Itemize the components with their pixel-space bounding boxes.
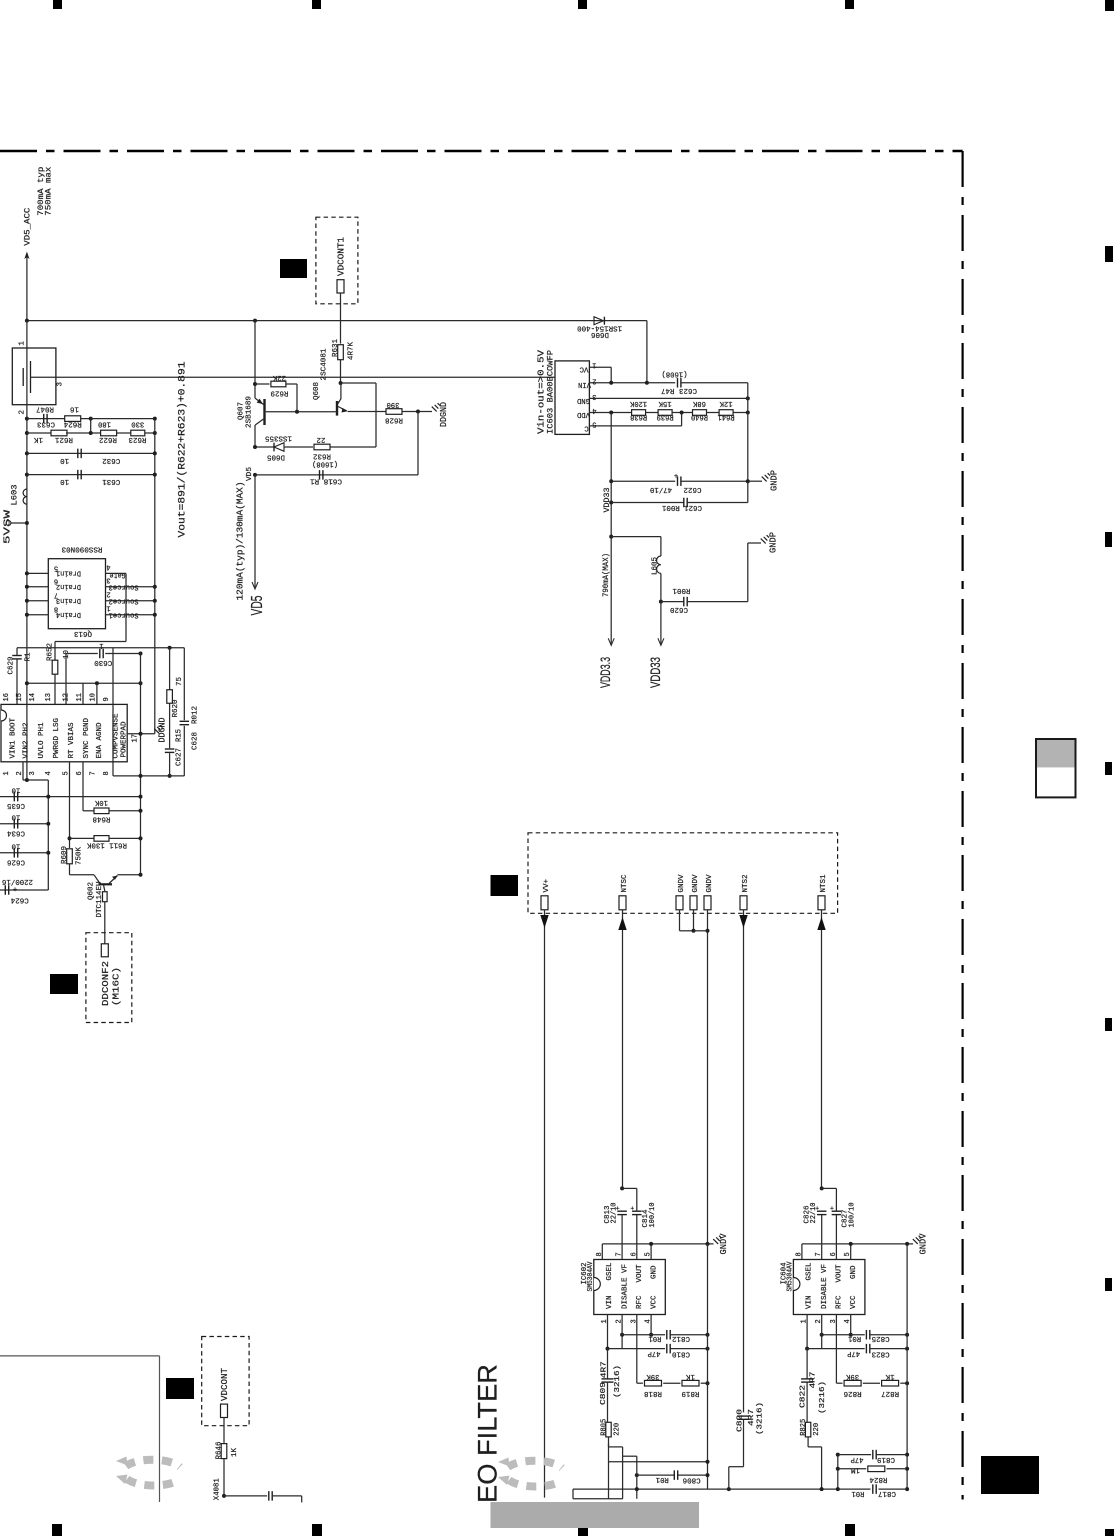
resistor R631 4R7K bbox=[340, 321, 342, 344]
resistor R623 330 bbox=[131, 430, 145, 436]
svg-text:120mA(typ)/130mA(MAX): 120mA(typ)/130mA(MAX) bbox=[236, 482, 246, 601]
svg-text:VD5: VD5 bbox=[246, 466, 254, 481]
IC602 resistor R805 220 bbox=[606, 1422, 611, 1437]
connector CN video dashed box bbox=[528, 833, 838, 914]
svg-text:C806: C806 bbox=[682, 1476, 700, 1484]
connector VDCONT1 pin bbox=[337, 280, 344, 293]
svg-text:1: 1 bbox=[19, 341, 27, 346]
svg-text:NTSC: NTSC bbox=[621, 874, 629, 892]
grey footer bar bbox=[491, 1502, 700, 1528]
wire rail to VIN bbox=[646, 321, 648, 383]
IC602 series cap C809 4R7 bbox=[607, 1349, 609, 1379]
svg-text:VIN: VIN bbox=[606, 1296, 614, 1310]
svg-text:R827: R827 bbox=[881, 1389, 899, 1397]
svg-text:RFC: RFC bbox=[836, 1295, 844, 1309]
page border crop mark top 4 bbox=[845, 0, 854, 9]
inductor L605 bbox=[657, 556, 661, 573]
capacitor C629 R1 bbox=[16, 648, 18, 655]
svg-text:C618 R1: C618 R1 bbox=[310, 476, 342, 484]
svg-text:VIN2 PH2: VIN2 PH2 bbox=[23, 723, 31, 759]
resistor R624 16 bbox=[65, 416, 81, 422]
svg-text:ENA AGND: ENA AGND bbox=[96, 722, 104, 758]
svg-text:120K: 120K bbox=[630, 399, 647, 407]
net VD5 output arrow bbox=[254, 475, 256, 588]
svg-text:R01: R01 bbox=[648, 1334, 661, 1342]
node VD5 branch bbox=[253, 319, 257, 323]
capacitor C819 47P bbox=[836, 1453, 840, 1457]
svg-text:17: 17 bbox=[132, 734, 140, 742]
wire R805 tail bbox=[608, 1443, 610, 1498]
svg-text:VDD33: VDD33 bbox=[647, 657, 663, 688]
svg-text:(3216): (3216) bbox=[819, 1381, 827, 1414]
wire GNDV2 bbox=[693, 910, 695, 931]
svg-text:GNDV: GNDV bbox=[706, 874, 714, 892]
svg-text:C627: C627 bbox=[176, 748, 184, 766]
svg-text:C812: C812 bbox=[672, 1334, 690, 1342]
svg-text:2: 2 bbox=[19, 410, 27, 415]
svg-text:4R7: 4R7 bbox=[810, 1372, 818, 1389]
svg-text:GNDV: GNDV bbox=[919, 1233, 929, 1255]
svg-text:R819: R819 bbox=[682, 1389, 700, 1397]
svg-text:C809: C809 bbox=[600, 1382, 608, 1405]
connector pin VV+ bbox=[541, 896, 548, 910]
svg-text:Q608: Q608 bbox=[313, 382, 321, 400]
svg-text:39K: 39K bbox=[646, 1372, 659, 1380]
svg-text:C628: C628 bbox=[192, 732, 200, 750]
page border crop mark bottom right bbox=[1105, 1529, 1114, 1536]
reference marker black box bottom right bbox=[981, 1456, 1039, 1494]
reference marker black box DDCONF2 bbox=[50, 974, 78, 994]
svg-text:DDGND: DDGND bbox=[439, 402, 449, 427]
svg-text:22/10: 22/10 bbox=[610, 1202, 618, 1223]
svg-text:2SB1689: 2SB1689 bbox=[246, 396, 254, 428]
battery cell symbol bbox=[22, 368, 24, 386]
svg-text:R648: R648 bbox=[93, 815, 111, 823]
svg-text:R825: R825 bbox=[800, 1418, 808, 1435]
signal arrow NTS2 down bbox=[743, 910, 745, 1413]
svg-text:3: 3 bbox=[29, 771, 37, 775]
svg-text:Vout=891/(R622+R623)+0.891: Vout=891/(R622+R623)+0.891 bbox=[177, 362, 189, 538]
svg-text:VCC: VCC bbox=[850, 1295, 858, 1309]
resistor R648 10K bbox=[82, 762, 84, 811]
svg-text:GNDV: GNDV bbox=[719, 1233, 729, 1255]
sheet frame dash-dot top line bbox=[0, 150, 963, 153]
svg-text:47P: 47P bbox=[850, 1455, 863, 1463]
svg-text:C819: C819 bbox=[877, 1455, 895, 1463]
svg-text:(M16C): (M16C) bbox=[111, 967, 121, 1006]
resistor R632 22 bbox=[314, 444, 330, 450]
svg-text:1: 1 bbox=[99, 641, 103, 649]
left rail x48 bbox=[47, 780, 49, 890]
svg-text:16: 16 bbox=[3, 693, 11, 701]
svg-text:VV+: VV+ bbox=[543, 879, 551, 893]
connector pin NTS1 bbox=[818, 896, 825, 910]
page border crop mark bottom 1 bbox=[52, 1524, 62, 1536]
zone marker square right 1 bbox=[1105, 246, 1113, 262]
svg-text:1K: 1K bbox=[34, 435, 43, 443]
svg-text:10K: 10K bbox=[95, 798, 108, 806]
transistor Q608 2SC4081 bbox=[336, 401, 338, 416]
connector pin GNDV bbox=[676, 896, 683, 910]
capacitor C627 R15 bbox=[169, 703, 171, 748]
svg-text:Q613: Q613 bbox=[74, 629, 92, 637]
svg-text:R632: R632 bbox=[313, 451, 331, 459]
connector VDCONT pin bbox=[221, 1404, 228, 1417]
page border crop mark bottom 3 bbox=[578, 1523, 588, 1536]
svg-text:C622: C622 bbox=[684, 485, 702, 493]
svg-text:VC: VC bbox=[579, 365, 588, 373]
svg-text:Q607: Q607 bbox=[238, 402, 246, 420]
capacitor C632 10 bbox=[25, 451, 29, 455]
svg-text:75: 75 bbox=[176, 677, 184, 686]
zone marker square right 4 bbox=[1105, 1018, 1112, 1031]
svg-text:22K: 22K bbox=[273, 373, 286, 381]
wire comp network top row bbox=[17, 647, 184, 649]
node L605 bottom bbox=[659, 600, 663, 604]
svg-text:Source1: Source1 bbox=[109, 610, 139, 618]
wire row A to rail bbox=[609, 1461, 708, 1463]
svg-text:SM5304AV: SM5304AV bbox=[587, 1261, 595, 1291]
logo watermark 2 bbox=[508, 1461, 562, 1487]
svg-text:22: 22 bbox=[317, 435, 326, 443]
svg-text:R623: R623 bbox=[128, 435, 146, 443]
node row1-right bbox=[89, 417, 93, 421]
svg-text:C630: C630 bbox=[94, 658, 112, 666]
svg-text:R646: R646 bbox=[216, 1441, 224, 1459]
connector pin GNDV bbox=[704, 896, 711, 910]
svg-text:R826: R826 bbox=[843, 1389, 861, 1397]
svg-text:100/10: 100/10 bbox=[848, 1202, 856, 1227]
resistor R824 1M bbox=[836, 1467, 840, 1471]
svg-text:+: + bbox=[830, 1204, 834, 1211]
svg-text:4: 4 bbox=[592, 406, 596, 414]
svg-text:R620: R620 bbox=[172, 699, 180, 717]
svg-text:C817: C817 bbox=[878, 1489, 896, 1497]
IC604 resistor R825 220 bbox=[805, 1422, 810, 1437]
svg-text:9: 9 bbox=[103, 697, 111, 701]
svg-text:R639: R639 bbox=[657, 412, 674, 420]
IC603 pin VIN bbox=[589, 382, 675, 384]
svg-text:VCC: VCC bbox=[650, 1295, 658, 1309]
svg-text:C825: C825 bbox=[871, 1334, 889, 1342]
IC partial box bottom-left bbox=[0, 1355, 160, 1357]
svg-text:GNDP: GNDP bbox=[770, 470, 780, 491]
connector VDCONT1 dashed box bbox=[316, 217, 358, 304]
page border crop mark top 1 bbox=[53, 0, 62, 9]
svg-text:22/10: 22/10 bbox=[810, 1202, 818, 1223]
ground DDGND bbox=[154, 729, 159, 734]
svg-text:R638: R638 bbox=[630, 412, 647, 420]
svg-text:C810: C810 bbox=[672, 1349, 690, 1357]
page border crop mark bottom 2 bbox=[312, 1524, 322, 1536]
signal arrow VV+ down bbox=[544, 910, 546, 1498]
svg-text:VIN1 BOOT: VIN1 BOOT bbox=[10, 718, 18, 759]
svg-text:4R7K: 4R7K bbox=[348, 342, 356, 360]
net VDD3.3 arrow bbox=[609, 535, 613, 539]
svg-text:VD5_ACC: VD5_ACC bbox=[24, 207, 33, 245]
connector pin NTSC bbox=[619, 896, 626, 910]
svg-text:Drain4: Drain4 bbox=[56, 610, 81, 618]
resistor R638 120K bbox=[632, 410, 646, 416]
svg-text:D605: D605 bbox=[267, 452, 285, 460]
svg-text:R818: R818 bbox=[644, 1389, 662, 1397]
svg-text:SYNC PGND: SYNC PGND bbox=[83, 718, 91, 759]
svg-text:R805: R805 bbox=[601, 1418, 609, 1435]
IC602 RFC row R818 R819 bbox=[636, 1315, 638, 1384]
zone marker square right 5 bbox=[1105, 1278, 1112, 1291]
node Q608 collector bbox=[339, 381, 343, 385]
svg-text:1SS355: 1SS355 bbox=[265, 433, 292, 441]
svg-text:RSS090N03: RSS090N03 bbox=[61, 544, 102, 552]
connector DDCONF2 pin bbox=[101, 944, 108, 957]
svg-text:VDD33: VDD33 bbox=[603, 487, 612, 512]
IC603 pin VC bbox=[589, 366, 611, 368]
svg-text:R631: R631 bbox=[332, 339, 340, 357]
wire Q607 emitter riser bbox=[254, 321, 256, 399]
ground GNDP 2 bbox=[747, 543, 749, 602]
svg-text:R640: R640 bbox=[691, 412, 708, 420]
svg-text:2200/16: 2200/16 bbox=[2, 877, 33, 885]
svg-text:R824: R824 bbox=[869, 1475, 887, 1483]
svg-text:1: 1 bbox=[592, 361, 596, 369]
svg-text:GSEL: GSEL bbox=[806, 1262, 814, 1280]
diode D606 1SR154-400 bbox=[594, 317, 603, 325]
capacitor C817 R01 bbox=[871, 1485, 879, 1494]
svg-text:220: 220 bbox=[614, 1422, 622, 1435]
svg-text:RT VBIAS: RT VBIAS bbox=[68, 722, 76, 758]
IC601 buck converter box bbox=[1, 704, 127, 761]
svg-text:DISABLE VF: DISABLE VF bbox=[821, 1264, 829, 1309]
capacitor C626 10 bbox=[0, 852, 48, 854]
reference marker black box connector bbox=[491, 875, 519, 896]
capacitor C635 10 bbox=[0, 796, 141, 798]
svg-text:VDCONT: VDCONT bbox=[220, 1367, 230, 1401]
IC604 series cap C822 4R7 bbox=[806, 1349, 808, 1379]
svg-text:C634: C634 bbox=[7, 828, 25, 836]
IC603 pin GND bbox=[589, 397, 747, 399]
net VD5_ACC arrow bbox=[26, 256, 28, 321]
svg-text:2SC4081: 2SC4081 bbox=[321, 348, 329, 380]
capacitor C618 R1 1608 bbox=[253, 473, 257, 477]
svg-text:Q602: Q602 bbox=[88, 882, 96, 900]
transistor Q602 DTC114EU bbox=[70, 874, 95, 876]
IC604 VIN row cap C823 bbox=[806, 1315, 808, 1349]
svg-text:220: 220 bbox=[813, 1422, 821, 1435]
svg-text:D606: D606 bbox=[591, 330, 609, 338]
resistor R609 750K bbox=[67, 849, 73, 864]
svg-text:R641: R641 bbox=[717, 412, 734, 420]
svg-text:3: 3 bbox=[592, 392, 596, 400]
svg-text:R652: R652 bbox=[47, 643, 55, 661]
svg-text:C624: C624 bbox=[10, 896, 28, 904]
svg-text:5: 5 bbox=[592, 419, 596, 427]
svg-text:R01: R01 bbox=[848, 1334, 861, 1342]
svg-text:VDCONT1: VDCONT1 bbox=[337, 237, 347, 276]
svg-text:10: 10 bbox=[60, 456, 69, 464]
svg-text:R629: R629 bbox=[271, 389, 289, 397]
svg-text:12: 12 bbox=[62, 693, 70, 701]
svg-text:13: 13 bbox=[45, 693, 53, 701]
wire pin8 to bottom row bbox=[112, 648, 114, 776]
svg-text:C623 R47: C623 R47 bbox=[661, 386, 697, 394]
terminal 5VSW bbox=[6, 521, 11, 526]
page border crop mark top 2 bbox=[312, 0, 321, 9]
svg-text:R609: R609 bbox=[61, 846, 69, 864]
resistor R652 10 bbox=[54, 642, 56, 661]
resistor R639 15K bbox=[658, 410, 672, 416]
svg-text:GSEL: GSEL bbox=[606, 1262, 614, 1280]
svg-text:11: 11 bbox=[76, 693, 84, 701]
svg-text:Drain3: Drain3 bbox=[56, 596, 81, 604]
svg-text:R624: R624 bbox=[63, 420, 81, 428]
svg-text:C626: C626 bbox=[7, 857, 25, 865]
svg-text:(3216): (3216) bbox=[614, 1365, 622, 1398]
svg-text:1M: 1M bbox=[851, 1465, 860, 1473]
wire powerpad bottom row bbox=[113, 775, 184, 777]
wire VDCONT1 to rail bbox=[340, 293, 342, 321]
IC603 pin C bbox=[589, 425, 681, 427]
svg-text:1K: 1K bbox=[686, 1372, 695, 1380]
connector VDCONT dashed box bbox=[202, 1337, 249, 1426]
svg-text:3: 3 bbox=[106, 576, 110, 584]
svg-text:47P: 47P bbox=[847, 1349, 860, 1357]
svg-text:C621 R001: C621 R001 bbox=[662, 503, 702, 511]
signal arrow NTS1 up bbox=[821, 910, 823, 1189]
svg-text:750K: 750K bbox=[76, 847, 84, 865]
svg-text:3: 3 bbox=[57, 382, 65, 387]
svg-text:C823: C823 bbox=[871, 1349, 889, 1357]
svg-text:4: 4 bbox=[45, 771, 53, 775]
capacitor C806 R01 row bbox=[635, 1473, 639, 1477]
svg-text:VOUT: VOUT bbox=[836, 1264, 844, 1282]
svg-text:GNDV: GNDV bbox=[692, 874, 700, 892]
GNDV rail IC602 lower bbox=[707, 1244, 709, 1489]
IC601 powerpad pin 17 bbox=[127, 733, 155, 735]
capacitor bottom left bbox=[224, 1495, 267, 1497]
IC604 VCC row cap C825 bbox=[850, 1315, 852, 1335]
capacitor C631 10 bbox=[25, 473, 29, 477]
svg-text:R1: R1 bbox=[25, 652, 33, 661]
svg-text:C822: C822 bbox=[800, 1385, 808, 1408]
reference marker black box VDCONT bbox=[166, 1378, 194, 1399]
resistor R620 75 bbox=[169, 648, 171, 690]
wire R825 tail bbox=[808, 1446, 822, 1448]
svg-text:1: 1 bbox=[3, 771, 11, 775]
svg-text:R01: R01 bbox=[655, 1475, 668, 1483]
svg-text:R621: R621 bbox=[55, 435, 73, 443]
resistor R611 130K bbox=[69, 762, 71, 848]
svg-text:R611 130K: R611 130K bbox=[87, 841, 127, 849]
svg-text:GNDP: GNDP bbox=[769, 532, 779, 553]
svg-text:(3216): (3216) bbox=[757, 1402, 765, 1435]
svg-text:2: 2 bbox=[592, 376, 596, 384]
svg-text:Drain2: Drain2 bbox=[56, 582, 81, 590]
capacitor C820 4R7 3216 on NTS2 bbox=[738, 1415, 750, 1417]
signal arrow NTSC up bbox=[622, 910, 624, 1189]
svg-text:+: + bbox=[13, 884, 17, 892]
svg-text:1K: 1K bbox=[231, 1448, 239, 1457]
Q613 gate pin 4 bbox=[106, 572, 127, 574]
capacitor C623 R47 1608 bbox=[677, 378, 679, 388]
svg-text:GND: GND bbox=[850, 1265, 858, 1279]
resistor R640 68K bbox=[693, 410, 707, 416]
svg-text:SM5304AV: SM5304AV bbox=[786, 1261, 794, 1291]
svg-text:R01: R01 bbox=[851, 1489, 864, 1497]
svg-text:DDGND: DDGND bbox=[158, 718, 168, 743]
page border crop mark top right bbox=[1105, 0, 1114, 11]
svg-text:C635: C635 bbox=[7, 801, 25, 809]
wire VDD33 to L605 bbox=[611, 536, 661, 538]
svg-text:RFC: RFC bbox=[636, 1295, 644, 1309]
svg-text:VDD: VDD bbox=[577, 410, 590, 418]
sheet frame dash-dot right line bbox=[961, 151, 963, 1500]
svg-text:5VSW: 5VSW bbox=[3, 509, 13, 544]
IC603 pin VDD bbox=[589, 412, 631, 414]
svg-text:+: + bbox=[630, 1204, 634, 1211]
svg-text:47P: 47P bbox=[647, 1349, 660, 1357]
svg-text:C: C bbox=[584, 424, 589, 432]
svg-text:7: 7 bbox=[90, 771, 98, 775]
svg-text:15K: 15K bbox=[658, 399, 671, 407]
wire pin11/pin10 row bbox=[27, 682, 141, 684]
svg-text:390: 390 bbox=[386, 400, 399, 408]
capacitor C621 R001 bbox=[609, 501, 613, 505]
wire GNDV3 rail bbox=[707, 910, 709, 1244]
capacitor C620 R001 bbox=[661, 601, 684, 603]
IC602 input caps C813 C814 bbox=[620, 1186, 624, 1190]
svg-text:DDCONF2: DDCONF2 bbox=[101, 961, 111, 1006]
svg-text:VIN: VIN bbox=[806, 1296, 814, 1310]
IC602 ground row GNDV bbox=[601, 1244, 603, 1260]
svg-text:R047: R047 bbox=[36, 404, 54, 412]
node bus-rail junction bbox=[25, 319, 29, 323]
svg-text:100/10: 100/10 bbox=[649, 1202, 657, 1227]
resistor R622 180 bbox=[101, 430, 117, 436]
svg-text:4R7: 4R7 bbox=[601, 1361, 609, 1378]
svg-text:68K: 68K bbox=[693, 399, 706, 407]
wire row1-row2 link bbox=[90, 419, 92, 433]
svg-text:16: 16 bbox=[70, 404, 79, 412]
IC602 VCC row cap C812 bbox=[650, 1315, 652, 1335]
svg-text:DISABLE VF: DISABLE VF bbox=[622, 1264, 630, 1309]
svg-text:180: 180 bbox=[98, 420, 111, 428]
connector pin NTS2 bbox=[740, 896, 747, 910]
resistor R646 1K bbox=[223, 1418, 225, 1443]
svg-text:POWERPAD: POWERPAD bbox=[121, 721, 129, 757]
connector pin GNDV bbox=[690, 896, 697, 910]
zone marker square right 3 bbox=[1105, 762, 1112, 775]
svg-text:NTS1: NTS1 bbox=[820, 874, 828, 892]
svg-text:IC603 BA00BCOWFP: IC603 BA00BCOWFP bbox=[546, 350, 556, 434]
svg-text:COMPVSENSE: COMPVSENSE bbox=[113, 713, 121, 758]
svg-text:C632: C632 bbox=[102, 456, 120, 464]
VDD33 rail bbox=[610, 413, 612, 537]
svg-text:12K: 12K bbox=[719, 399, 732, 407]
resistor R621 1K bbox=[25, 431, 29, 435]
svg-text:L605: L605 bbox=[652, 557, 660, 575]
svg-text:1: 1 bbox=[106, 604, 110, 612]
svg-text:R012: R012 bbox=[192, 706, 200, 724]
svg-text:GNDV: GNDV bbox=[678, 874, 686, 892]
wire bus through battery bbox=[26, 321, 28, 780]
capacitor C634 10 bbox=[0, 823, 48, 825]
svg-text:8: 8 bbox=[103, 771, 111, 775]
resistor R629 22K bbox=[253, 382, 257, 386]
svg-text:Source2: Source2 bbox=[109, 596, 139, 604]
svg-text:Gate: Gate bbox=[110, 570, 126, 578]
svg-text:R15: R15 bbox=[176, 729, 184, 742]
svg-text:R628: R628 bbox=[385, 416, 403, 424]
